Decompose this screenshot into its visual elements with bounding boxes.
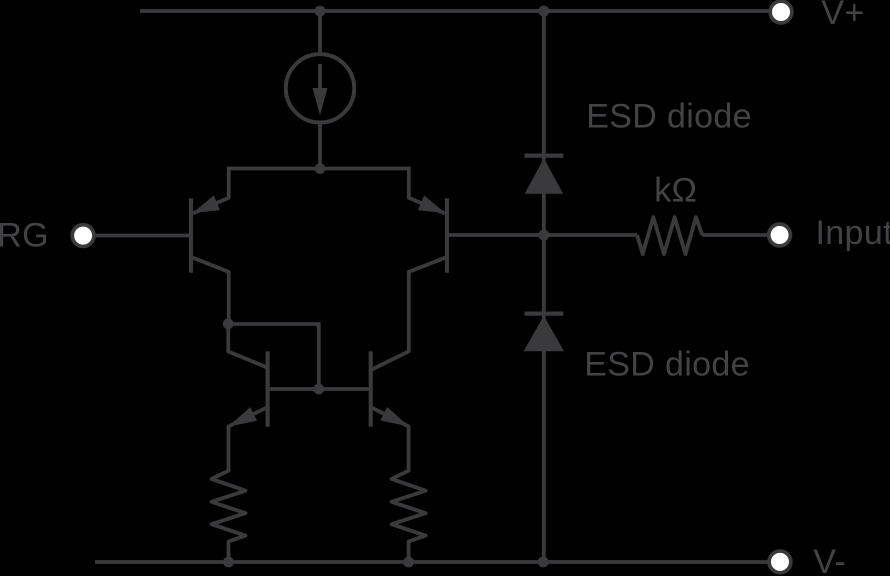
wire tail horizontal <box>229 167 409 171</box>
transistor Q4 base bar <box>369 351 373 426</box>
svg-text:RG: RG <box>0 216 49 254</box>
transistor Q1 base bar <box>189 198 193 272</box>
svg-text:ESD diode: ESD diode <box>586 98 752 136</box>
ESD diode D1 cathode bar <box>525 154 564 158</box>
node Q1 collector junction <box>223 318 234 329</box>
wire top rail V+ <box>140 9 770 13</box>
node top rail / ESD branch <box>538 6 549 17</box>
wire input node to resistor <box>544 233 637 237</box>
terminal Input <box>769 224 791 246</box>
svg-text:V+: V+ <box>821 0 864 32</box>
transistor Q4 emitter <box>371 407 408 471</box>
resistor R2 (Q4 emitter) <box>392 467 426 562</box>
current source I1 <box>286 54 354 122</box>
transistor Q3 emitter <box>229 407 268 471</box>
node base tie junction <box>313 384 324 395</box>
wire collector-to-base link <box>228 324 319 389</box>
transistor Q2 base bar <box>445 198 449 272</box>
ESD diode D2 anode triangle <box>524 316 564 352</box>
transistor Q1 collector <box>192 257 229 324</box>
node ESD branch to V- rail <box>538 557 549 568</box>
wire V+ rail to current source <box>318 11 322 53</box>
wire RG to Q1 base <box>95 234 191 238</box>
svg-text:Input: Input <box>816 214 890 252</box>
node R2 to V- rail <box>403 557 414 568</box>
transistor Q3 emitter arrow (NPN) <box>228 407 257 426</box>
ESD diode D2 cathode bar <box>525 312 564 316</box>
wire bottom rail V- <box>95 560 770 564</box>
transistor Q3 base bar <box>266 351 270 426</box>
transistor Q3 collector <box>228 324 267 368</box>
wire Q2 base to input node <box>447 233 544 237</box>
wire Q2 emitter lead <box>409 167 445 214</box>
resistor R1 (Q3 emitter) <box>212 467 246 562</box>
terminal RG <box>72 225 94 247</box>
current source arrow <box>313 64 328 116</box>
wire Q3-Q4 shared base <box>268 387 371 391</box>
transistor Q4 emitter arrow (NPN) <box>380 407 409 427</box>
terminal V+ <box>770 1 792 23</box>
node input junction <box>538 230 549 241</box>
node tail junction <box>315 163 326 174</box>
transistor Q2 emitter arrow (PNP) <box>418 195 446 213</box>
wire resistor to Input terminal <box>702 233 769 237</box>
ESD diode D1 anode triangle <box>525 158 564 194</box>
node top rail / current source junction <box>315 6 326 17</box>
svg-text:ESD diode: ESD diode <box>584 346 750 384</box>
node R1 to V- rail <box>223 557 234 568</box>
svg-text:kΩ: kΩ <box>654 171 697 209</box>
wire ESD branch vertical <box>542 11 546 562</box>
terminal V- <box>769 551 791 573</box>
transistor Q1 emitter arrow (PNP) <box>193 195 221 213</box>
wire current source to tail node <box>318 125 322 169</box>
wire Q1 emitter lead <box>193 167 229 214</box>
transistor Q2 collector <box>371 257 446 370</box>
svg-text:V-: V- <box>813 543 846 576</box>
resistor R3 kilo-ohm <box>637 217 702 254</box>
